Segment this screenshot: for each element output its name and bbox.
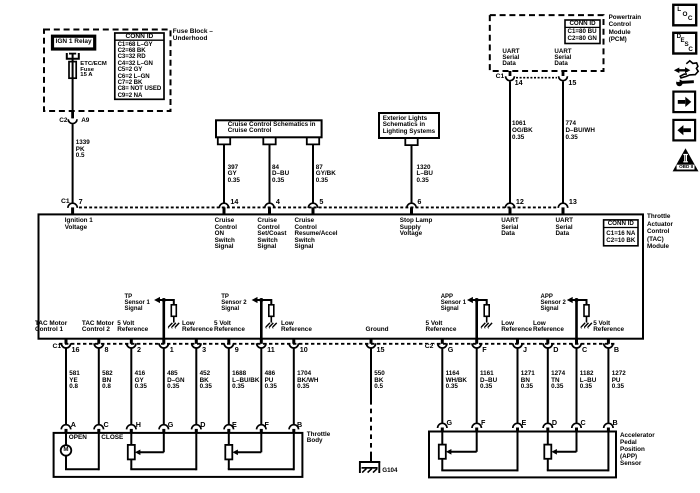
TP sensor 2 wire junction to resistor — [261, 299, 271, 301]
wire 1274 TN (D-D) — [547, 349, 549, 424]
APP sensor pin B stub — [607, 428, 610, 432]
TAC bottom C1 pin 15 ground terminal arc — [366, 343, 375, 348]
wire label 1271 BN 0.35 — [521, 371, 535, 390]
cruise control reference box — [216, 120, 322, 137]
throttle body pin H terminal arc — [127, 425, 136, 430]
wire label 1320 L-BU — [417, 165, 433, 185]
wire 550 BK to G104 (dashed part) — [370, 400, 372, 456]
low ref label pin3 — [182, 321, 213, 333]
TAC top pin 4 (Set/Coast) terminal arc — [265, 203, 274, 208]
TP sensor 2 signal arrow — [252, 297, 258, 303]
TAC bottom C2 pin B stub — [607, 339, 610, 344]
throttle pin H letter — [136, 421, 141, 428]
motor bottom rail to pin C — [65, 468, 99, 470]
APP pot 2 top wire (pin D) — [547, 432, 549, 445]
TAC top pin 7 (Ignition 1 Voltage) stub — [71, 207, 74, 214]
APP pin D letter — [552, 419, 557, 426]
connector C2 label — [59, 118, 67, 124]
throttle body pin G terminal arc — [159, 425, 168, 430]
TAC top pin 12 (UART) stub — [509, 207, 512, 214]
pin B wire to rail — [293, 433, 295, 470]
low ref label pinD — [533, 321, 564, 333]
TP sensor pot 1 top wire (pin H) — [130, 433, 132, 445]
TAC bottom C1 pin 8 stub — [97, 339, 100, 344]
TP sensor 2 internal chassis ground — [266, 323, 270, 328]
throttle body pin B terminal arc — [289, 425, 298, 430]
throttle body pin F terminal arc — [257, 425, 266, 430]
wire 1339 PK 0.5 to TAC pin 7 — [72, 124, 74, 203]
exterior lights box label — [383, 116, 435, 136]
TAC top pin 14 (Cruise ON) stub — [223, 207, 226, 214]
wire 1182 L-BU (C-C) — [576, 349, 578, 424]
APP pot 1 top wire (pin G) — [441, 432, 443, 445]
throttle body box — [54, 433, 303, 477]
APP sensor 1 signal arrow — [467, 297, 473, 303]
APP pin B wire to rail — [607, 432, 609, 472]
pin 3 number — [202, 346, 206, 353]
throttle body pin G stub — [162, 429, 165, 433]
throttle pin G letter — [168, 421, 174, 428]
throttle pin C letter — [104, 421, 109, 428]
CLOSE label — [101, 435, 123, 441]
TAC CONN ID box — [604, 220, 638, 246]
icon LOC letters C — [688, 16, 693, 22]
TAC top pin 7 (Ignition 1 Voltage) terminal arc — [68, 203, 77, 208]
inline connector C2/A9 stub — [71, 111, 74, 118]
fuse block CONN ID title — [115, 34, 164, 41]
TP pot1 rail to pin D — [130, 468, 196, 470]
TAC bottom C1 pin 11 stub — [260, 339, 263, 344]
TAC bottom C1 pin 16 terminal arc — [61, 343, 70, 348]
5 volt ref label pin2 — [117, 321, 148, 333]
motor M letter — [63, 447, 68, 453]
wire label 550 BK 0.5 — [374, 371, 385, 390]
icon OBD II text — [679, 165, 693, 170]
throttle body pin C stub — [97, 429, 100, 433]
wire label 1704 BK/WH 0.35 — [297, 371, 318, 390]
wire 774 D-BU/WH to TAC pin 13 — [562, 82, 564, 204]
throttle pin F letter — [265, 421, 269, 428]
TAC bottom connector dashed line — [59, 343, 616, 345]
wire label 1182 L-BU 0.35 — [580, 371, 596, 390]
TAC bottom C1 pin 2 stub — [130, 339, 133, 344]
TP sensor 2 junction dot — [259, 298, 263, 302]
throttle pin A letter — [71, 421, 76, 428]
icon check-repair arrows — [674, 68, 679, 74]
connector stub under cruise box at x=313 — [307, 137, 319, 144]
ground label pin15 — [366, 327, 389, 333]
icon forward-arrow box — [673, 92, 695, 113]
throttle body pin B stub — [292, 429, 295, 433]
pin 4 number — [276, 198, 280, 205]
APP sensor pin B terminal arc — [604, 423, 613, 428]
PCM module label — [609, 14, 642, 43]
APP pin E wire to rail — [517, 432, 519, 472]
TP sensor 1 wire junction to resistor — [164, 299, 174, 301]
exterior lights reference box — [379, 113, 439, 138]
icon DESC box — [673, 33, 696, 54]
throttle body pin F stub — [260, 429, 263, 433]
icon LOC letters O — [683, 12, 688, 18]
wire label 1272 PU 0.35 — [612, 371, 626, 390]
TAC bottom C1 pin 10 stub — [292, 339, 295, 344]
icon DESC letter E — [681, 38, 685, 44]
fuse F1 ETC/ECM 15A body — [69, 62, 76, 79]
wire 1161 D-BU (F-F) — [476, 349, 478, 424]
icon wrench — [676, 80, 683, 87]
APP sensor box — [429, 432, 616, 478]
icon OBD II triangle — [673, 148, 699, 171]
wire label 1274 TN 0.35 — [551, 371, 565, 390]
APP sensor 1 wire junction to resistor — [477, 299, 487, 301]
PCM pin 15 cup — [559, 76, 568, 80]
APP sensor 1 signal label — [441, 295, 466, 312]
wire label 452 BK 0.35 — [200, 371, 212, 390]
wire label 1688 L-BU/BK 0.35 — [232, 371, 259, 390]
wire label 582 BN 0.8 — [102, 371, 113, 390]
APP sensor pin G terminal arc — [438, 423, 447, 428]
TP sensor 2 pull resistor — [269, 305, 274, 317]
wire 486 PU (pin11-F) — [260, 349, 262, 425]
PCM CONN ID rows — [568, 29, 597, 43]
APP pot1 wiper arrow from pin F — [476, 432, 478, 452]
TAC top pin 6 (Stop Lamp) stub — [410, 207, 413, 214]
wire 1061 OG/BK to TAC pin 12 — [509, 82, 511, 204]
connector A9 label — [81, 118, 89, 124]
wire 452 BK (pin3-D) — [195, 349, 197, 425]
TAC top pin 5 (Resume/Accel) stub — [312, 207, 315, 214]
wire label 774 D-BU/WH — [566, 120, 595, 142]
TP sensor 2 signal label — [221, 295, 246, 312]
TAC top pin 4 (Set/Coast) stub — [268, 207, 271, 214]
TP pot2 rail to pin B — [228, 468, 294, 470]
TP sensor pot 2 body — [225, 445, 232, 460]
connector stub under exterior lights box — [405, 138, 417, 145]
TAC bottom C1 pin 15 ground stub — [370, 339, 373, 344]
relay label IGN 1 Relay — [53, 39, 95, 46]
APP pin B letter — [613, 419, 618, 426]
TAC bottom C1 pin 1 terminal arc — [159, 343, 168, 348]
throttle motor M wire from pin A — [65, 433, 67, 445]
TAC top pin 12 (UART) terminal arc — [505, 203, 514, 208]
wire label 87 GY/BK — [316, 165, 336, 185]
TP sensor 1 signal wire to pin — [163, 300, 166, 339]
pin 14 number — [230, 198, 238, 205]
TAC motor control 1 label — [35, 321, 67, 333]
APP sensor 1 signal wire to pin — [475, 300, 478, 339]
APP sensor pin E stub — [516, 428, 519, 432]
TAC top pin 6 (Stop Lamp) terminal arc — [407, 203, 416, 208]
TAC module box — [39, 214, 644, 338]
PCM CONN ID title — [565, 21, 600, 27]
TAC top pin 13 (UART) stub — [562, 207, 565, 214]
TP pot2 bottom wire — [228, 459, 230, 469]
APP pin E letter — [522, 419, 527, 426]
APP pot2 wiper arrow from pin C — [576, 432, 578, 452]
throttle body pin E stub — [227, 429, 230, 433]
wire 1320 L-BU to TAC pin 6 — [411, 145, 413, 203]
APP sensor 2 signal arrow — [567, 297, 573, 303]
wire label 1061 OG/BK — [512, 120, 533, 142]
G104 label — [382, 468, 397, 474]
wire label 397 GY — [228, 165, 240, 185]
fuse value label — [80, 62, 107, 79]
TAC top pin 13 (UART) terminal arc — [558, 203, 567, 208]
wire label 486 PU 0.35 — [265, 371, 277, 390]
APP sensor 2 wire junction to resistor — [577, 299, 587, 301]
pin 2 number — [137, 346, 141, 353]
pin D wire to rail — [195, 433, 197, 470]
UART label at pin 13 — [556, 218, 574, 238]
wire 416 GY (pin2-H) — [130, 349, 132, 425]
APP pot2 rail to pin B — [547, 469, 609, 471]
TAC bottom C2 pin J terminal arc — [513, 343, 522, 348]
TP pot2 wiper arrow from pin F — [260, 433, 262, 452]
OPEN label — [69, 435, 87, 441]
pin 6 number — [417, 198, 421, 205]
wire fuse to connector C2 — [72, 62, 74, 118]
TAC top pin 5 (Resume/Accel) terminal arc — [308, 203, 317, 208]
connector stub under cruise box at x=269.5 — [263, 137, 275, 144]
wire 485 D-GN (pin1-G) — [163, 349, 165, 425]
wire 1704 BK/WH (pin10-B) — [293, 349, 295, 425]
TAC bottom C1 pin 9 terminal arc — [224, 343, 233, 348]
throttle pin D letter — [200, 421, 205, 428]
connector stub under cruise box at x=224 — [218, 137, 230, 144]
pin C letter — [582, 346, 587, 353]
TAC C2 bottom label — [424, 344, 434, 351]
APP sensor pin D terminal arc — [543, 423, 552, 428]
icon DESC letter S — [685, 42, 689, 48]
throttle body pin A stub — [65, 429, 68, 433]
APP sensor 2 resistor to ground wire — [586, 316, 588, 322]
TP pot1 bottom wire — [130, 459, 132, 469]
TP pot1 wiper arrow from pin G — [163, 433, 165, 452]
APP sensor pin D stub — [546, 428, 549, 432]
powertrain control module PCM (dashed box) — [490, 15, 604, 71]
APP pin F letter — [481, 419, 485, 426]
APP sensor 2 junction dot — [575, 298, 579, 302]
throttle body pin D terminal arc — [192, 425, 201, 430]
TAC bottom C2 pin F terminal arc — [472, 343, 481, 348]
throttle body pin D stub — [195, 429, 198, 433]
APP pot 2 body — [544, 445, 551, 459]
throttle pin B letter — [297, 421, 302, 428]
PCM pin 14 number — [515, 79, 523, 86]
TAC bottom C2 pin C terminal arc — [572, 343, 581, 348]
fuse block label — [173, 28, 213, 43]
TP sensor 2 resistor to ground wire — [270, 316, 272, 322]
fuse block CONN ID box — [115, 33, 164, 99]
wire 84 D-BU to TAC pin 4 — [269, 144, 271, 203]
ignition 1 voltage label — [65, 218, 93, 231]
wire 1164 WH/BK (G-G) — [441, 349, 443, 424]
wire label 485 D-GN 0.35 — [167, 371, 185, 390]
TAC C1 top label — [61, 199, 70, 206]
pin F letter — [482, 346, 486, 353]
inline connector C2/A9 cup — [68, 119, 77, 123]
TAC top pin 14 (Cruise ON) terminal arc — [219, 203, 228, 208]
wire label 1164 WH/BK 0.35 — [446, 371, 467, 390]
wire 397 GY to TAC pin 14 — [223, 144, 225, 203]
UART label at pin 12 — [501, 218, 519, 238]
throttle body label — [307, 432, 330, 445]
cruise box label — [228, 122, 316, 135]
relay K1 IGN 1 Relay box — [53, 36, 95, 49]
5 volt ref label pinG — [426, 321, 457, 333]
pin 12 number — [516, 198, 524, 205]
TP sensor 1 junction dot — [162, 298, 166, 302]
pin 9 number — [235, 346, 239, 353]
TP sensor 1 signal arrow — [154, 297, 160, 303]
TP sensor 1 pull resistor — [171, 305, 176, 317]
TAC bottom C1 pin 16 stub — [65, 339, 68, 344]
icon LOC box — [673, 5, 696, 26]
APP sensor 2 signal wire to pin — [575, 300, 578, 339]
PCM pin 14 stub — [509, 71, 512, 76]
throttle body pin H stub — [130, 429, 133, 433]
pin 5 number — [319, 198, 323, 205]
wire 550 BK to G104 (solid part) — [370, 349, 372, 401]
pin 15 number — [377, 346, 385, 353]
cruise resume/accel label — [295, 218, 338, 251]
fuse block CONN ID separator — [115, 39, 164, 41]
icon back-arrow box — [673, 120, 695, 140]
APP sensor 1 junction dot — [475, 298, 479, 302]
APP sensor pin C terminal arc — [572, 423, 581, 428]
throttle body pin A terminal arc — [61, 425, 70, 430]
throttle body pin C terminal arc — [94, 425, 103, 430]
pin 7 number — [79, 198, 83, 205]
PCM pin 15 number — [568, 79, 576, 86]
APP sensor pin F stub — [475, 428, 478, 432]
icon DESC letter D — [677, 34, 681, 40]
TAC bottom C2 pin B terminal arc — [604, 343, 613, 348]
wire label 416 GY 0.35 — [135, 371, 147, 390]
APP sensor 2 internal chassis ground — [581, 323, 585, 328]
TAC CONN ID separator — [604, 227, 638, 229]
PCM UART label 2 — [554, 49, 571, 66]
PCM CONN ID box — [565, 20, 600, 44]
icon forward-arrow glyph — [678, 100, 686, 104]
pin 10 number — [300, 346, 308, 353]
TP sensor pot 2 top wire (pin E) — [228, 433, 230, 445]
low ref label pinJ — [501, 321, 532, 333]
TAC bottom C2 pin D stub — [546, 339, 549, 344]
wire 582 BN (pin8-C) — [98, 349, 100, 425]
pin G letter — [448, 346, 454, 353]
TAC bottom C2 pin C stub — [575, 339, 578, 344]
APP sensor label — [620, 432, 655, 467]
TP sensor 1 resistor to ground wire — [173, 316, 175, 322]
PCM pin 14 cup — [506, 76, 515, 80]
APP pin G letter — [447, 419, 453, 426]
wire label 1161 D-BU 0.35 — [480, 371, 497, 390]
wire 1271 BN (J-E) — [517, 349, 519, 424]
TP sensor 1 internal chassis ground — [169, 323, 173, 328]
wire label 84 D-BU — [272, 165, 289, 185]
wire 1272 PU (B-B) — [607, 349, 609, 424]
TAC bottom C1 pin 11 terminal arc — [257, 343, 266, 348]
fuse block - underhood (dashed enclosure) — [44, 30, 171, 112]
wire relay terminal to fuse F1 — [72, 54, 74, 62]
TAC motor control 2 label — [82, 321, 114, 333]
TAC bottom C1 pin 1 stub — [162, 339, 165, 344]
APP sensor pin C stub — [575, 428, 578, 432]
pin 11 number — [267, 346, 275, 353]
icon LOC letters L — [677, 7, 681, 13]
TP sensor 1 signal label — [125, 295, 150, 312]
pin 13 number — [569, 198, 577, 205]
pin 8 number — [105, 346, 109, 353]
TAC bottom C1 pin 3 terminal arc — [192, 343, 201, 348]
throttle motor to bottom rail — [65, 456, 67, 470]
pin C wire to rail — [98, 433, 100, 470]
TAC CONN ID rows — [606, 230, 635, 244]
cruise set/coast label — [257, 218, 286, 251]
APP sensor 1 pull resistor — [484, 305, 489, 317]
TP sensor 2 signal wire to pin — [260, 300, 263, 339]
TAC bottom C1 pin 10 terminal arc — [289, 343, 298, 348]
APP sensor 2 signal label — [541, 295, 566, 312]
TAC bottom C1 pin 8 terminal arc — [94, 343, 103, 348]
pin B letter — [614, 346, 619, 353]
low ref label pin10 — [281, 321, 312, 333]
APP sensor 1 resistor to ground wire — [486, 316, 488, 322]
throttle body pin E terminal arc — [224, 425, 233, 430]
5 volt ref label pinB — [593, 321, 624, 333]
APP pot2 bottom wire — [547, 459, 549, 471]
pin 1 number — [170, 346, 174, 353]
APP sensor pin E terminal arc — [513, 423, 522, 428]
APP pot1 bottom wire — [441, 459, 443, 471]
APP sensor pin G stub — [441, 428, 444, 432]
fuse block CONN ID rows — [118, 42, 162, 100]
wire label 581 YE 0.8 — [69, 371, 80, 390]
icon back-arrow glyph — [683, 128, 691, 132]
pin J letter — [523, 346, 527, 353]
APP pin C letter — [581, 419, 586, 426]
TAC C1 bottom label — [53, 344, 62, 351]
wire 1688 L-BU/BK (pin9-E) — [228, 349, 230, 425]
APP sensor pin F terminal arc — [472, 423, 481, 428]
TAC module label — [647, 213, 673, 250]
wire from relay to fuse (top terminal tick) — [69, 53, 76, 55]
TAC CONN ID title — [604, 221, 638, 227]
throttle pin E letter — [232, 421, 237, 428]
fuse holder clip bracket — [67, 53, 79, 59]
TAC bottom C1 pin 3 stub — [195, 339, 198, 344]
PCM pin 15 stub — [562, 71, 565, 76]
TAC bottom C2 pin J stub — [516, 339, 519, 344]
APP pot 1 body — [439, 445, 446, 459]
TAC bottom C1 pin 2 terminal arc — [127, 343, 136, 348]
TAC bottom C2 pin G stub — [441, 339, 444, 344]
cruise on switch label — [215, 218, 237, 251]
TAC bottom C2 pin F stub — [475, 339, 478, 344]
ground G104 symbol — [359, 461, 380, 463]
TAC bottom C1 pin 9 stub — [227, 339, 230, 344]
PCM C1 label — [496, 74, 505, 81]
TAC bottom C2 pin D terminal arc — [543, 343, 552, 348]
wire label 1339 PK 0.5 — [76, 140, 90, 159]
5 volt ref label pin9 — [214, 321, 245, 333]
TAC top connector dashed line — [79, 206, 558, 208]
icon DESC letter C — [688, 47, 692, 53]
stop lamp supply label — [400, 218, 433, 238]
wire 581 YE (pin16-A) — [65, 349, 67, 425]
APP sensor 1 internal chassis ground — [481, 323, 485, 328]
